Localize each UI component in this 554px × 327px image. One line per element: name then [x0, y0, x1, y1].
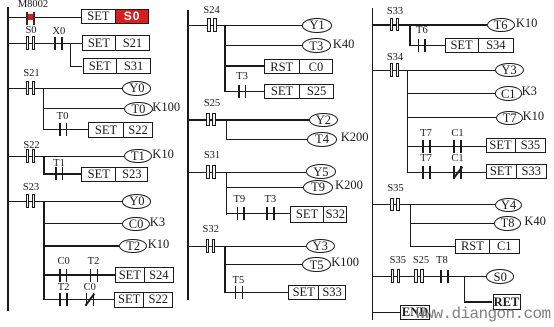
coil Y3 — [306, 239, 336, 254]
value K40 (T8) — [524, 215, 546, 228]
wire — [408, 146, 486, 147]
contact C1 — [452, 139, 464, 155]
wire — [44, 274, 115, 275]
wire — [409, 25, 410, 46]
box SET S0 (active) — [81, 9, 149, 24]
contact T5 — [234, 285, 246, 301]
contact S31 — [205, 165, 217, 181]
coil Y5 — [306, 164, 336, 179]
wire — [225, 45, 302, 46]
wire — [188, 246, 306, 247]
label S35 — [387, 184, 403, 195]
box RET — [493, 294, 521, 309]
wire — [226, 120, 227, 140]
contact T3 — [237, 84, 249, 100]
contact T7 — [421, 139, 433, 155]
label T7 — [420, 129, 432, 140]
label M8002 — [18, 0, 48, 10]
contact M8002 (active) — [25, 11, 37, 27]
label T3 (second) — [264, 195, 276, 206]
wire — [225, 292, 288, 293]
wire — [226, 187, 303, 188]
coil Y0 — [122, 81, 151, 96]
coil Y2 — [309, 113, 338, 128]
wire — [225, 65, 264, 66]
wire — [226, 213, 290, 214]
box SET S23 — [81, 167, 148, 182]
wire — [188, 119, 309, 120]
coil Y4 — [495, 198, 523, 213]
value K10 (T2) — [148, 238, 170, 251]
box SET S33 — [288, 285, 346, 301]
label S25 — [204, 99, 220, 110]
timer coil T6 — [487, 18, 515, 33]
wire — [44, 299, 114, 300]
wire — [410, 45, 445, 46]
contact C0 — [58, 268, 70, 284]
wire — [226, 139, 307, 140]
wire — [373, 204, 495, 205]
label S22 — [23, 141, 39, 152]
label C1 — [451, 129, 463, 140]
box SET S25 — [264, 84, 334, 99]
timer coil T0 — [124, 102, 153, 117]
wire — [464, 277, 465, 303]
value K10 (T6) — [516, 17, 538, 30]
timer coil T8 — [494, 216, 521, 231]
value K3 — [150, 216, 165, 229]
wire — [225, 264, 302, 265]
contact S35 — [389, 197, 401, 213]
label S35 (final rung) — [390, 256, 406, 267]
contact T8 — [439, 269, 451, 285]
label T9 — [233, 195, 245, 206]
label C0 (second) — [84, 283, 96, 294]
contact C1 normally-closed — [452, 165, 464, 181]
wire — [71, 66, 83, 67]
label S21 — [23, 69, 39, 80]
value K10 (T7) — [523, 110, 545, 123]
box SET S31 — [83, 58, 152, 73]
label T1 — [53, 159, 65, 170]
timer coil T4 — [307, 132, 337, 147]
timer coil T1 — [124, 149, 152, 164]
label T0 — [57, 112, 69, 123]
box SET S33 (column 3) — [486, 164, 547, 179]
wire — [225, 91, 264, 92]
coil Y3 (column 3) — [495, 63, 524, 78]
wire — [407, 70, 408, 173]
box RST C1 — [455, 239, 520, 255]
contact C0 normally-closed — [85, 292, 97, 308]
contact T2 — [89, 268, 101, 284]
contact S25 — [205, 112, 217, 128]
contact T7 (second) — [421, 165, 433, 181]
timer coil T5 — [302, 257, 330, 272]
wire — [408, 172, 486, 173]
coil Y0 (second) — [122, 194, 151, 209]
wire — [373, 24, 487, 25]
label S23 — [23, 183, 39, 194]
label S24 — [203, 6, 219, 17]
label S25 (final rung) — [413, 256, 429, 267]
box SET S22 (second) — [114, 292, 173, 308]
contact S0 — [25, 36, 37, 52]
contact S25 (final rung) — [413, 269, 425, 285]
timer coil T2 — [119, 239, 147, 254]
contact S35 (final rung) — [390, 269, 402, 285]
label S31 — [204, 151, 220, 162]
contact S21 — [25, 81, 37, 97]
wire — [43, 156, 44, 174]
value K200 (T9) — [335, 179, 363, 192]
contact S34 — [389, 63, 401, 79]
wire — [224, 25, 225, 92]
contact T2 (second) — [58, 292, 70, 308]
label X0 — [52, 27, 65, 38]
wire — [8, 17, 81, 18]
wire — [226, 173, 227, 215]
wire — [411, 223, 495, 224]
state coil S0 — [486, 269, 514, 284]
box SET S34 — [445, 38, 515, 53]
wire — [43, 201, 44, 300]
wire — [8, 88, 122, 89]
label T2 — [88, 257, 100, 268]
wire — [188, 172, 306, 173]
label S33 — [387, 7, 403, 18]
box RST C0 — [264, 59, 333, 74]
timer coil T3 — [302, 38, 331, 53]
counter coil C1 — [495, 86, 523, 101]
contact T3 (second) — [265, 206, 277, 222]
contact T0 — [58, 122, 70, 138]
left rail column 2 — [187, 10, 188, 300]
contact X0 — [53, 36, 65, 52]
wire — [188, 25, 302, 26]
wire — [43, 88, 44, 130]
wire — [44, 129, 88, 130]
label T6 — [416, 26, 428, 37]
contact S32 — [205, 239, 217, 255]
contact S33 — [389, 17, 401, 33]
label S0 — [25, 26, 36, 37]
label T8 — [436, 256, 448, 267]
label T3 — [236, 72, 248, 83]
wire — [411, 246, 456, 247]
contact S23 — [25, 194, 37, 210]
coil Y1 — [302, 18, 333, 33]
value K40 — [333, 38, 355, 51]
box SET S22 — [88, 122, 153, 138]
contact S24 — [206, 17, 218, 33]
box SET S32 — [290, 206, 348, 223]
left rail column 3 — [372, 8, 373, 320]
label C0 — [57, 257, 69, 268]
wire — [44, 173, 82, 174]
box END — [400, 305, 430, 320]
label S32 — [203, 225, 219, 236]
contact S22 — [25, 149, 37, 165]
label S34 — [387, 53, 403, 64]
watermark www.diangon.com — [416, 306, 551, 322]
wire — [8, 201, 122, 202]
wire — [224, 246, 225, 293]
wire — [408, 117, 497, 118]
box SET S35 — [486, 138, 547, 153]
label T5 — [233, 276, 245, 287]
wire — [408, 93, 495, 94]
wire — [44, 245, 119, 246]
wire — [8, 156, 124, 157]
value K100 — [152, 101, 180, 114]
box SET S21 — [82, 35, 150, 50]
contact T6 — [417, 38, 429, 54]
contact T9 — [236, 206, 248, 222]
value K200 — [341, 131, 369, 144]
wire — [8, 43, 82, 44]
contact T1 — [54, 166, 66, 182]
wire — [373, 312, 401, 313]
wire — [373, 70, 495, 71]
label T7 (second) — [420, 154, 432, 165]
wire — [373, 276, 487, 277]
counter coil C0 — [122, 217, 150, 232]
value K10 — [152, 148, 174, 161]
wire — [465, 301, 493, 302]
left rail column 1 — [7, 7, 8, 311]
label C1 (second) — [451, 154, 463, 165]
wire — [410, 205, 411, 248]
value K100 (T5) — [331, 256, 359, 269]
timer coil T9 — [303, 180, 333, 195]
box SET S24 — [115, 267, 174, 283]
value K3 (C1) — [522, 85, 537, 98]
label T2 (second) — [58, 283, 70, 294]
wire — [44, 223, 122, 224]
wire — [70, 43, 71, 67]
timer coil T7 — [496, 111, 523, 126]
wire — [44, 108, 124, 109]
